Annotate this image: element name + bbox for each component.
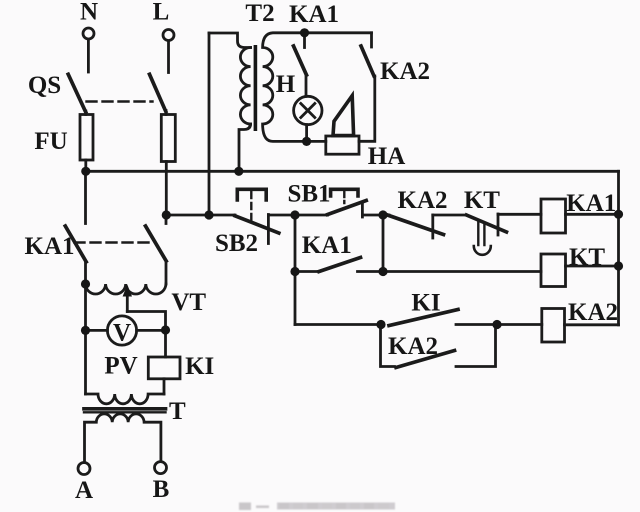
control bus SB1 to KA2 contact bbox=[362, 214, 389, 217]
junction node L fuse on control bus bbox=[162, 210, 171, 219]
junction node T2 secondary top bbox=[300, 28, 309, 37]
contact KA2 (NC on bus) bar bbox=[431, 215, 434, 238]
transformer T2 primary bottom lead to N wire bbox=[239, 124, 251, 171]
wire KA1 coil to right rail bbox=[566, 213, 619, 216]
svg-text:B: B bbox=[153, 476, 170, 503]
svg-text:T2: T2 bbox=[245, 0, 274, 27]
fuse FU (N side) bbox=[80, 115, 93, 161]
pushbutton SB2 actuator bracket bbox=[237, 189, 266, 200]
svg-text:KT: KT bbox=[464, 187, 500, 214]
buzzer HA box bbox=[326, 136, 359, 154]
contact KT delay symbol lines bbox=[478, 222, 484, 246]
wire voltmeter to node bbox=[137, 329, 166, 332]
wire left rail SB1 node down bbox=[294, 215, 297, 325]
relay coil KA2 box bbox=[542, 309, 565, 343]
right rail wire bbox=[617, 171, 620, 324]
svg-text:SB2: SB2 bbox=[215, 230, 258, 257]
contact KT (NC delayed) blade bbox=[467, 215, 507, 232]
lamp H circle bbox=[294, 96, 322, 124]
junction node lamp bottom bbox=[302, 137, 311, 146]
svg-text:VT: VT bbox=[171, 289, 206, 316]
contact KA1 (seal-in) blade bbox=[319, 258, 361, 272]
junction node T2 primary on N wire bbox=[234, 167, 243, 176]
contact KA2 (parallel) blade bbox=[396, 351, 455, 368]
voltmeter PV circle bbox=[107, 316, 136, 345]
contact KI right wire bbox=[456, 323, 497, 326]
pushbutton SB2 contact bar bbox=[267, 215, 270, 244]
lamp H cross bbox=[301, 104, 315, 118]
wire QS to fuse FU(L) bbox=[165, 111, 168, 115]
relay coil KA1 box bbox=[541, 199, 566, 233]
wire KA2 contact to buzzer HA bbox=[359, 76, 375, 141]
wire N terminal to QS bbox=[87, 40, 90, 73]
junction node KI contact left bbox=[376, 320, 385, 329]
pushbutton SB1 contact bar bbox=[361, 204, 364, 217]
wire T2 primary left bbox=[208, 33, 211, 215]
svg-text:KA1: KA1 bbox=[566, 190, 616, 217]
svg-text:KI: KI bbox=[411, 290, 440, 317]
svg-text:KA1: KA1 bbox=[302, 232, 352, 259]
terminal N bbox=[83, 28, 94, 39]
pushbutton SB1 actuator bracket bbox=[331, 189, 358, 196]
wire L terminal to QS bbox=[167, 41, 170, 73]
svg-text:L: L bbox=[153, 0, 170, 25]
junction node SB1 right bbox=[378, 210, 387, 219]
svg-text:V: V bbox=[113, 320, 131, 347]
svg-text:KI: KI bbox=[185, 353, 214, 380]
wire VT wiper to node bbox=[127, 312, 165, 331]
fuse FU (L side) bbox=[161, 115, 175, 162]
transformer T2 primary top lead bbox=[209, 33, 251, 48]
switch QS pole L blade bbox=[150, 74, 166, 111]
VT wiper arrow shaft bbox=[126, 293, 129, 312]
left rail VT to T primary bbox=[84, 284, 87, 394]
transformer T2 core bbox=[254, 45, 258, 131]
transformer T2 primary winding bbox=[240, 48, 250, 124]
wire KT coil row bbox=[383, 270, 541, 273]
relay coil KI box bbox=[148, 357, 180, 379]
wire FU(N) to main N bus bbox=[84, 160, 87, 171]
contact KA1 pole 2 stub bbox=[165, 215, 168, 224]
svg-text:SB1: SB1 bbox=[287, 181, 330, 208]
junction node seal-in right bbox=[378, 267, 387, 276]
svg-text:KA2: KA2 bbox=[388, 333, 438, 360]
contact KT delay symbol arc bbox=[474, 246, 491, 255]
contact KT (NC delayed) bar bbox=[497, 214, 500, 235]
junction node SB1 left bbox=[290, 210, 299, 219]
junction node rail at KA1 coil bbox=[614, 210, 623, 219]
terminal L bbox=[163, 30, 174, 41]
contact KA1 pole 2 blade bbox=[146, 226, 167, 261]
svg-text:QS: QS bbox=[28, 72, 61, 99]
svg-text:N: N bbox=[80, 0, 98, 25]
VT wiper arrowhead bbox=[123, 285, 132, 297]
QS mechanical link (dashed) bbox=[87, 100, 153, 102]
terminal B bbox=[155, 462, 167, 474]
svg-text:T: T bbox=[169, 398, 186, 425]
main N wire (horizontal) bbox=[86, 170, 619, 173]
junction node T2 left on control bus bbox=[204, 210, 213, 219]
wire KI coil to T primary bbox=[163, 379, 166, 394]
svg-text:KA2: KA2 bbox=[568, 299, 618, 326]
svg-text:H: H bbox=[276, 71, 296, 98]
transformer T secondary winding bbox=[85, 414, 161, 463]
transformer T core bar upper bbox=[84, 407, 166, 411]
contact KA2 (NC on bus) blade bbox=[384, 214, 444, 235]
wire KA1 contact to lamp bbox=[305, 75, 308, 96]
control bus KA2 to KT contact bbox=[433, 214, 467, 217]
junction node rail at KT coil bbox=[614, 261, 623, 270]
junction node KI contact right bbox=[492, 320, 501, 329]
svg-text:A: A bbox=[75, 477, 93, 504]
junction node on N wire at FU bbox=[81, 167, 90, 176]
contact KA2 (parallel) right wire bbox=[456, 325, 496, 367]
switch QS pole N blade bbox=[68, 74, 86, 112]
wire QS to fuse FU(N) bbox=[84, 111, 87, 115]
wire FU(L) to control bus bbox=[165, 162, 168, 216]
pushbutton SB2 actuator link (dashed) bbox=[250, 192, 252, 222]
wire KA2 coil to right rail bbox=[565, 323, 619, 326]
contact KA1 (seal-in) left wire bbox=[295, 270, 319, 273]
contact KA2 (lamp branch) blade bbox=[361, 46, 374, 76]
svg-text:KA1: KA1 bbox=[25, 233, 75, 260]
control bus SB2 to SB1 bbox=[268, 214, 327, 217]
svg-text:FU: FU bbox=[34, 128, 67, 155]
transformer T2 secondary winding and leads bbox=[263, 33, 372, 142]
svg-text:KA2: KA2 bbox=[380, 58, 430, 85]
control bus KT to KA1 coil bbox=[498, 213, 541, 216]
wire node to KI coil bbox=[164, 330, 167, 357]
svg-text:PV: PV bbox=[104, 353, 137, 380]
transformer T primary winding bbox=[86, 394, 165, 404]
pushbutton SB1 blade bbox=[328, 201, 367, 215]
buzzer HA horn bbox=[333, 96, 354, 136]
svg-text:HA: HA bbox=[368, 143, 406, 170]
svg-text:KA1: KA1 bbox=[289, 1, 339, 28]
wire lamp to bottom node bbox=[305, 125, 308, 142]
wire KI contact row bbox=[295, 323, 381, 326]
pushbutton SB1 actuator link (dashed) bbox=[343, 192, 345, 203]
wire rail to voltmeter bbox=[86, 329, 108, 332]
contact KA2 (parallel) left drop bbox=[381, 325, 395, 367]
relay coil KT box bbox=[541, 254, 566, 287]
wire to KA2 coil bbox=[497, 323, 542, 326]
wire KA1 pole2 to VT right bbox=[165, 261, 168, 284]
junction node voltmeter right bbox=[161, 325, 170, 334]
contact KA1 (seal-in) right wire bbox=[358, 270, 384, 273]
contact KI blade bbox=[389, 310, 458, 326]
junction node seal-in left bbox=[290, 267, 299, 276]
junction node VT left bbox=[81, 279, 90, 288]
junction node voltmeter left bbox=[81, 326, 90, 335]
wire KT coil to right rail bbox=[566, 265, 619, 268]
svg-text:KT: KT bbox=[569, 244, 605, 271]
contact KA1 (lamp branch) blade bbox=[294, 46, 307, 75]
caption smudge (blurred gray text at bottom) bbox=[239, 503, 395, 511]
transformer T core bar lower bbox=[84, 411, 166, 413]
svg-text:KA2: KA2 bbox=[398, 187, 448, 214]
wire bus node to KT coil row bbox=[382, 215, 385, 272]
pushbutton SB2 blade bbox=[235, 216, 279, 233]
wire KA1 pole1 to VT left bbox=[84, 262, 87, 284]
autotransformer VT winding bbox=[86, 284, 166, 294]
KA1 mechanical link (dashed) bbox=[75, 241, 155, 243]
control bus left segment bbox=[166, 214, 235, 217]
contact KA1 (lamp branch) stub bbox=[303, 33, 306, 48]
contact KA2 (lamp branch) stub bbox=[370, 33, 373, 47]
contact KA1 pole 1 blade bbox=[65, 226, 86, 262]
terminal A bbox=[78, 463, 90, 475]
wire N rail to KA1 contact bbox=[84, 171, 87, 223]
